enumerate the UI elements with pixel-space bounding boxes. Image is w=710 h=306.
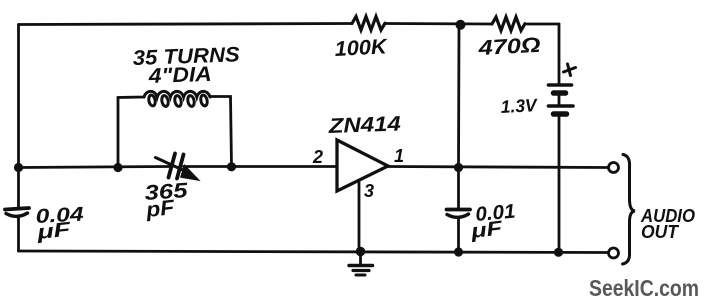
svg-text:pF: pF: [144, 196, 177, 222]
node junction ground: [356, 247, 366, 257]
variable capacitor VC1 arrowhead: [181, 166, 199, 181]
terminal audio out top: [609, 163, 619, 173]
wire top rail middle segment: [385, 22, 492, 25]
wire left rail upper: [17, 25, 20, 208]
battery B1 plate short bottom: [554, 111, 567, 117]
variable capacitor VC1 plate left: [169, 154, 176, 178]
capacitor C2 0.01uF bottom plate: [447, 214, 469, 217]
node junction coil right: [227, 162, 236, 171]
ground stub: [359, 252, 362, 264]
node junction coil left: [113, 163, 122, 172]
wire coil right leg: [210, 97, 232, 168]
wire from top junction down to output line: [457, 25, 460, 168]
op-amp U1 ZN414 triangle: [337, 140, 388, 191]
battery B1 plate long bottom: [549, 104, 574, 108]
svg-text:OUT: OUT: [641, 222, 680, 242]
svg-text:SeekIC.com: SeekIC.com: [589, 275, 699, 301]
inductor L1 coil loops: [144, 91, 210, 97]
wire left rail lower: [17, 217, 20, 251]
brace audio out: [623, 155, 636, 265]
node junction output line: [454, 163, 463, 172]
svg-text:3: 3: [364, 181, 374, 201]
svg-text:100K: 100K: [334, 35, 389, 61]
resistor R1 100K zigzag: [352, 17, 385, 31]
wire top rail right segment: [527, 23, 559, 26]
battery B1 plate short top: [554, 90, 566, 96]
wire coil left leg: [118, 97, 144, 168]
wire battery drop from top rail: [558, 24, 561, 83]
svg-text:μF: μF: [469, 217, 505, 243]
battery B1 plate long top: [549, 83, 572, 87]
variable capacitor VC1 plate right: [177, 155, 184, 179]
wire bottom rail: [19, 251, 608, 253]
wire output line: [388, 167, 608, 168]
svg-text:470Ω: 470Ω: [477, 34, 541, 60]
wire main tuning line right: [184, 165, 338, 168]
svg-text:2: 2: [312, 147, 323, 167]
capacitor C1 0.04uF top plate: [5, 208, 29, 210]
node junction left rail / tuning line: [14, 163, 23, 172]
ground bar 1: [349, 264, 373, 267]
wire output junction down to capacitor C2: [457, 168, 460, 209]
battery plus sign: [564, 64, 576, 76]
wire capacitor C2 to bottom rail: [457, 218, 460, 252]
wire top rail left segment: [19, 24, 353, 25]
svg-text:4"DIA: 4"DIA: [147, 63, 212, 88]
terminal audio out bottom: [609, 248, 619, 258]
svg-text:1: 1: [394, 146, 404, 166]
wire pin 3 to ground rail: [358, 181, 361, 252]
svg-text:ZN414: ZN414: [327, 112, 401, 138]
resistor R2 470ohm zigzag: [492, 17, 525, 31]
capacitor C2 0.01uF top plate: [447, 208, 471, 212]
node junction cap bottom rail: [454, 247, 463, 256]
svg-text:1.3V: 1.3V: [500, 95, 539, 117]
variable capacitor VC1 arrow shaft: [156, 158, 187, 172]
ground bar 3: [356, 274, 365, 277]
node junction top rail: [456, 20, 466, 30]
capacitor C1 0.04uF bottom plate: [6, 213, 28, 216]
svg-text:μF: μF: [35, 219, 73, 245]
inductor L1 loop turns: [148, 94, 208, 107]
battery B1 cell connector stub: [558, 96, 561, 105]
ground bar 2: [353, 269, 369, 272]
wire main tuning line left: [19, 167, 170, 168]
node junction battery bottom rail: [554, 248, 563, 257]
wire battery to bottom rail: [558, 117, 561, 253]
